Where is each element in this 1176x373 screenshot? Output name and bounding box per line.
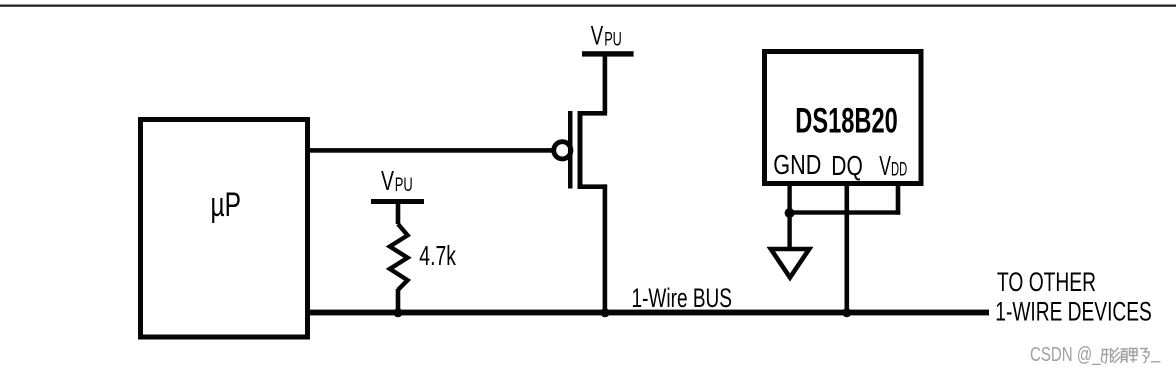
ground symbol xyxy=(771,249,809,278)
watermark glyph 野 xyxy=(1130,349,1150,364)
power rail VPU (resistor) xyxy=(371,199,424,204)
resistor R1 zigzag xyxy=(390,224,408,290)
wire: drain riser to VPU rail xyxy=(603,53,608,113)
transistor Q1 channel bar xyxy=(578,111,583,189)
transistor Q1 source stub xyxy=(578,184,608,189)
svg-text:V: V xyxy=(381,165,394,196)
svg-text:V: V xyxy=(879,150,891,181)
DS18B20 box U2 xyxy=(765,52,922,184)
wire: GND pin down xyxy=(787,186,791,247)
watermark glyph 那 xyxy=(1101,348,1113,364)
wire: GND-VDD strap xyxy=(787,210,900,214)
transistor Q1 gate bar xyxy=(568,111,573,189)
svg-text:DQ: DQ xyxy=(831,150,863,181)
svg-text:GND: GND xyxy=(773,149,821,180)
power rail VPU (MOSFET) xyxy=(582,51,634,56)
wire: DQ pin down to bus xyxy=(845,186,850,313)
wire: µP to MOSFET gate xyxy=(307,148,555,153)
microprocessor box U1 (µP) xyxy=(141,120,308,338)
svg-text:DS18B20: DS18B20 xyxy=(795,101,898,140)
node: GND/VDD strap junction xyxy=(785,208,795,218)
svg-text:1-WIRE DEVICES: 1-WIRE DEVICES xyxy=(995,297,1152,327)
top border rule xyxy=(0,5,1176,7)
wire: rail to resistor top xyxy=(396,204,401,224)
svg-text:4.7k: 4.7k xyxy=(419,240,456,271)
svg-text:DD: DD xyxy=(891,160,907,181)
svg-text:1-Wire BUS: 1-Wire BUS xyxy=(632,283,733,313)
wire: resistor bottom to bus xyxy=(396,289,401,311)
wire: source dropper to 1-Wire bus xyxy=(603,184,608,312)
watermark trailing underscore xyxy=(1151,361,1161,363)
svg-text:TO OTHER: TO OTHER xyxy=(997,267,1096,297)
svg-text:PU: PU xyxy=(604,29,622,50)
transistor Q1 gate bubble xyxy=(554,142,571,159)
svg-text:µP: µP xyxy=(210,186,241,224)
svg-text:CSDN @_: CSDN @_ xyxy=(1030,344,1101,366)
node: source/bus junction xyxy=(600,308,609,317)
svg-text:PU: PU xyxy=(395,175,413,196)
watermark glyph 須 xyxy=(1114,348,1128,364)
transistor Q1 drain stub xyxy=(578,111,608,116)
wire: 1-Wire bus xyxy=(306,310,989,316)
node: resistor/bus junction xyxy=(393,308,402,317)
svg-text:V: V xyxy=(591,21,603,51)
wire: VDD pin down xyxy=(896,186,901,215)
node: DQ/bus junction xyxy=(842,308,851,317)
